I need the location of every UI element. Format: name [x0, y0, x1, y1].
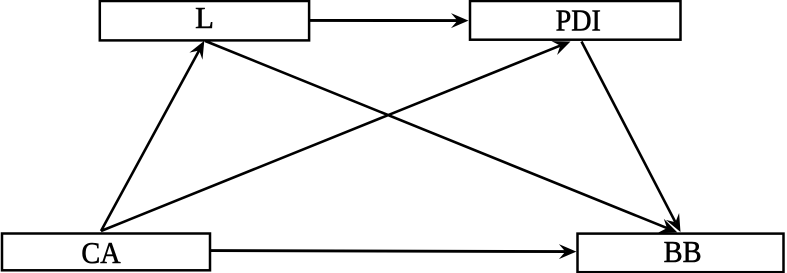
box CA — [2, 234, 210, 271]
arrowhead — [658, 219, 677, 233]
arrow PDI to BB — [582, 42, 681, 233]
arrowhead — [451, 13, 469, 28]
arrow L to BB — [205, 41, 677, 233]
arrowhead — [666, 213, 681, 232]
arrow CA to PDI — [101, 41, 571, 231]
svg-text:CA: CA — [81, 236, 121, 270]
box BB — [578, 234, 784, 273]
arrow CA to BB — [210, 244, 576, 259]
arrow CA to L — [101, 41, 204, 231]
wire — [205, 41, 667, 228]
arrowhead — [189, 41, 204, 60]
box PDI — [470, 1, 681, 40]
arrowhead — [559, 244, 577, 259]
box L — [100, 1, 309, 40]
wire — [210, 251, 565, 252]
wire — [582, 42, 676, 223]
arrowhead — [552, 41, 571, 55]
svg-text:BB: BB — [664, 235, 702, 269]
wire — [309, 19, 458, 22]
wire — [101, 51, 199, 232]
svg-text:PDI: PDI — [556, 4, 601, 38]
svg-text:L: L — [195, 1, 214, 35]
wire — [101, 46, 560, 231]
arrow L to PDI — [309, 13, 469, 28]
